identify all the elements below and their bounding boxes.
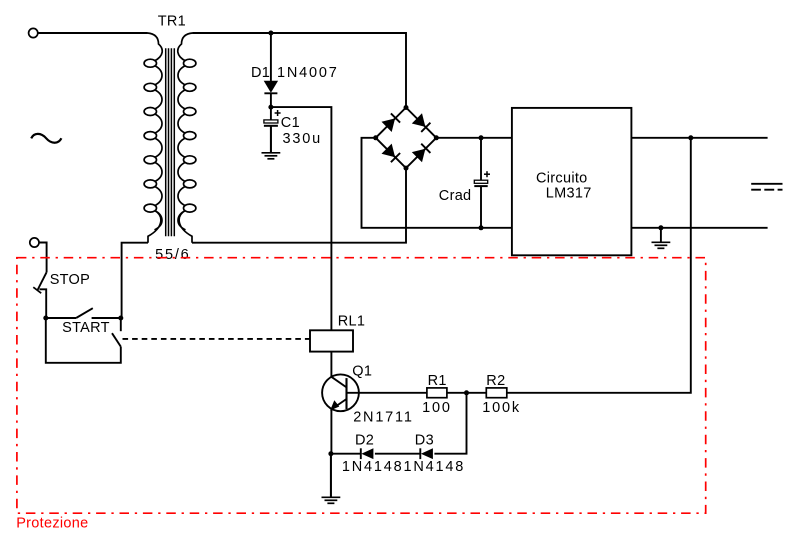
- wire: [331, 453, 361, 455]
- DC output symbol: [751, 184, 782, 190]
- label D1: [251, 65, 270, 81]
- label 1N4148 (D2): [342, 459, 404, 475]
- wire: [375, 453, 421, 455]
- ground: [262, 126, 281, 159]
- wire: [436, 137, 512, 139]
- ground: [322, 454, 341, 503]
- wire: [192, 33, 406, 243]
- svg-text:330u: 330u: [283, 131, 322, 147]
- label R2: [486, 373, 505, 389]
- svg-text:R2: R2: [486, 373, 505, 389]
- wire: [39, 243, 47, 273]
- label 100: [422, 400, 452, 416]
- svg-text:TR1: TR1: [158, 13, 186, 29]
- label D2: [355, 433, 374, 449]
- wire: [362, 138, 512, 228]
- diode D1: [264, 81, 278, 94]
- wire: [330, 352, 332, 377]
- svg-text:1N4148: 1N4148: [404, 459, 466, 475]
- svg-text:55/6: 55/6: [155, 247, 190, 263]
- svg-text:1N4148: 1N4148: [342, 459, 404, 475]
- junction: [328, 451, 333, 456]
- svg-text:C1: C1: [281, 115, 300, 131]
- label Crad: [439, 188, 472, 204]
- relay coil RL1: [310, 330, 353, 351]
- terminal input top: [29, 28, 38, 37]
- label 330u: [283, 131, 322, 147]
- wire: [196, 168, 406, 243]
- svg-text:Protezione: Protezione: [16, 516, 88, 532]
- label Protezione: [16, 516, 88, 532]
- junction: [373, 135, 378, 140]
- svg-text:D2: D2: [355, 433, 374, 449]
- svg-text:R1: R1: [428, 373, 447, 389]
- diode D3: [420, 448, 433, 459]
- switch STOP: [33, 272, 46, 318]
- bridge diode (L to T): [382, 113, 401, 132]
- wire: [330, 454, 332, 498]
- relay contact blade: [112, 333, 121, 346]
- wire: [46, 317, 76, 319]
- wire: [447, 392, 486, 394]
- junction: [404, 105, 409, 110]
- svg-text:100k: 100k: [482, 400, 521, 416]
- label 2N1711: [353, 409, 414, 425]
- wire: [270, 33, 272, 82]
- svg-text:START: START: [62, 320, 110, 336]
- diode D2: [361, 448, 374, 459]
- wire: [330, 409, 332, 454]
- label Q1: [352, 364, 372, 380]
- junction: [434, 135, 439, 140]
- bridge rectifier frame: [376, 108, 437, 169]
- label D3: [415, 433, 434, 449]
- svg-text:D1: D1: [251, 65, 270, 81]
- relay actuation dashed link: [123, 338, 311, 340]
- svg-text:STOP: STOP: [50, 272, 90, 288]
- wire: [92, 317, 121, 319]
- svg-text:D3: D3: [415, 433, 434, 449]
- junction: [268, 31, 273, 36]
- transformer TR1 primary winding: [144, 33, 162, 243]
- switch START blade: [76, 308, 93, 318]
- junction: [464, 390, 469, 395]
- junction: [688, 135, 693, 140]
- protection boundary (red dash-dot): [17, 258, 706, 514]
- capacitor Crad: [474, 138, 490, 228]
- resistor R1: [427, 388, 447, 398]
- label Circuito: [536, 170, 588, 186]
- wire: [631, 137, 767, 139]
- transformer TR1 secondary winding: [178, 33, 196, 243]
- transformer TR1 core: [166, 48, 175, 236]
- svg-text:100: 100: [422, 400, 452, 416]
- junction: [43, 316, 48, 321]
- svg-text:Crad: Crad: [439, 188, 472, 204]
- bridge diode (L to B): [382, 144, 401, 163]
- wire: [631, 227, 767, 229]
- svg-text:Circuito: Circuito: [536, 170, 588, 186]
- svg-text:LM317: LM317: [546, 186, 592, 202]
- transistor Q1: [322, 374, 359, 411]
- ground: [652, 228, 671, 249]
- block Circuito LM317: [512, 108, 632, 255]
- label LM317: [546, 186, 592, 202]
- junction: [479, 135, 484, 140]
- junction: [479, 225, 484, 230]
- junction: [118, 316, 123, 321]
- bridge diode (T to R): [412, 113, 431, 132]
- junction: [404, 166, 409, 171]
- label STOP: [50, 272, 90, 288]
- wire: [507, 138, 691, 393]
- label 1N4007: [277, 65, 339, 81]
- wire: [347, 392, 427, 394]
- label 55/6: [155, 247, 190, 263]
- svg-text:RL1: RL1: [338, 313, 366, 329]
- AC source symbol: [31, 134, 61, 143]
- wire: [122, 243, 148, 318]
- wire: [434, 393, 466, 454]
- capacitor C1: [264, 107, 281, 126]
- wire: [46, 318, 121, 363]
- svg-text:2N1711: 2N1711: [353, 409, 414, 425]
- junction: [658, 225, 663, 230]
- wire: [270, 94, 272, 108]
- label RL1: [338, 313, 366, 329]
- label 100k: [482, 400, 521, 416]
- label R1: [428, 373, 447, 389]
- wire: [120, 318, 122, 331]
- label TR1: [158, 13, 186, 29]
- terminal input bottom: [30, 238, 39, 247]
- wire: [271, 107, 332, 330]
- svg-text:1N4007: 1N4007: [277, 65, 339, 81]
- svg-text:Q1: Q1: [352, 364, 372, 380]
- label C1: [281, 115, 300, 131]
- resistor R2: [486, 388, 507, 398]
- label START: [62, 320, 110, 336]
- junction: [268, 105, 273, 110]
- label 1N4148 (D3): [404, 459, 466, 475]
- wire: [270, 126, 272, 153]
- bridge diode (B to R): [412, 144, 431, 163]
- wire: [38, 32, 148, 34]
